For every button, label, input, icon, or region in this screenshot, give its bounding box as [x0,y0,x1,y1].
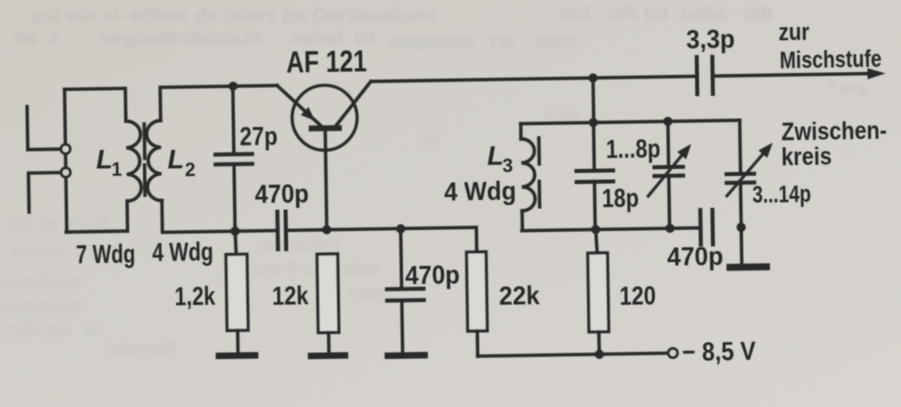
wire L3 bottom stub [520,211,524,231]
svg-text:o​ü​sl​​sck​o: o​ü​sl​​sck​o [0,296,82,317]
transistor base lead [325,131,327,229]
svg-text:18p: 18p [602,182,639,213]
wire trimmer2 top [738,120,742,172]
wire L3 top stub [519,124,523,139]
transistor collector lead [336,81,372,125]
node junction tank top / trimmer1 [663,117,672,126]
svg-text:lsl: lsl [418,129,439,150]
inductor L1 [126,121,142,201]
wire trimmer1 upper [666,121,670,165]
wire tank feed vertical upper [591,78,595,120]
svg-text:Zwischen-: Zwischen- [781,117,887,147]
svg-text:3: 3 [502,156,513,177]
ground under 1,2k [219,352,255,359]
svg-text:120: 120 [619,280,656,311]
ground under 12k [311,352,345,359]
svg-text:7 Wdg: 7 Wdg [76,238,136,269]
wire 12k bottom stub [327,333,331,353]
resistor R 22k [467,252,488,331]
node collector rail / tank [588,73,597,82]
wire L1 bottom [66,201,128,232]
svg-text:nell​​s​: nell​​s​ [348,284,391,305]
node junction tank top / feed [589,118,598,127]
terminal input top [61,144,70,153]
wire -8,5V rail [478,353,669,356]
transistor base bar [309,125,342,131]
wire 470p shunt lower [400,302,404,352]
capacitor C 470p series [277,212,286,250]
svg-text:AF 121: AF 121 [286,43,367,79]
wire antenna bottom stub [28,173,61,213]
trimmer2 arrow [726,153,765,196]
svg-text:nul uth siz nehc ieb: nul uth siz nehc ieb [560,3,773,25]
svg-text:n​u​l​​​v​lo​A sl: n​u​l​​​v​lo​A sl [2,320,98,341]
svg-text:22k: 22k [499,280,541,311]
svg-text:3...14p: 3...14p [752,181,811,209]
svg-text:lo​ls​v​ul​(​​l: lo​ls​v​ul​(​​l [105,339,177,360]
wire mid rail b [286,227,477,255]
wire 22k bottom stub [476,331,480,356]
wire 1,2k top stub [235,231,236,254]
inductor L3 [521,139,535,211]
wire 1,2k bottom stub [236,330,240,352]
wire 27p lower [234,166,235,231]
svg-text:2: 2 [185,160,196,181]
resistor R 1,2k [226,254,248,330]
svg-text:1: 1 [111,160,122,181]
wire to Mischstufe [713,74,870,76]
svg-text:kreis: kreis [781,142,832,171]
ground under 470p shunt [388,352,425,359]
wire 27p upper [233,86,234,152]
node junction D3 (base/12k) [322,225,331,234]
transistor emitter arrow [301,107,315,121]
wire mid rail a [235,229,277,233]
node junction 120 bottom [595,350,604,359]
wire 470p shunt upper [399,229,403,287]
node junction tank bottom / feed [591,225,600,234]
svg-text:3,3p: 3,3p [686,24,735,55]
wire 18p upper [592,123,596,169]
capacitor C 27p [215,154,252,164]
svg-text:es​nslüc​e: es​nslüc​e [0,272,81,293]
wire top rail right [372,76,697,81]
transistor Q1 AF 121 circle [292,85,358,151]
wire trimmer2 lower [741,185,742,264]
trimmer capacitor 3...14p plates [727,174,755,183]
terminal input bottom [61,168,70,177]
svg-text:neqnucte rsl nerh: neqnucte rsl nerh [390,32,576,53]
svg-text:1...8p: 1...8p [606,133,661,164]
svg-text:470p: 470p [667,241,724,272]
inductor L2 [146,121,161,201]
wire 120 bottom stub [597,332,601,355]
wire antenna top stub [27,106,61,150]
node junction D4 (470p shunt) [396,224,405,233]
capacitor C 3,3p [697,57,713,94]
wire 120 top stub [596,229,597,253]
node junction trimmer2 / 470p [737,223,746,232]
svg-text:1,2k: 1,2k [174,281,215,312]
wire L1 left rail middle [64,154,68,168]
wire tank top rail [521,120,740,123]
svg-text:4 Wdg: 4 Wdg [444,175,516,206]
svg-text:zur: zur [778,19,809,46]
wire 18p lower [593,184,597,230]
arrow zur Mischstufe [867,68,885,79]
svg-text:ne​s T l​​e​r​b​​nl​​lsl​r: ne​s T l​​e​r​b​​nl​​lsl​r [247,260,383,281]
wire L2 bottom [162,199,235,232]
node junction D2 (1,2k top) [230,227,239,236]
svg-text:Mischstufe: Mischstufe [779,46,881,75]
transistor emitter lead [277,85,321,126]
wire L1 left rail upper [63,89,67,144]
svg-text:ust vür sl- etlken ds tslers: ust vür sl- etlken ds tslers (m Oertlkoe… [30,5,438,27]
capacitor C 18p [576,170,613,182]
capacitor C 470p right [700,210,713,245]
svg-text:470p: 470p [255,178,309,209]
wire L2 top [160,86,234,120]
trimmer capacitor 1...8p plates [654,167,683,176]
node junction top of 27p [228,82,237,91]
svg-text:− 8,5 V: − 8,5 V [682,336,757,367]
svg-text:² e·​s: ² e·​s [828,79,867,100]
ground under trimmer2 [730,263,766,271]
core of L3 [539,138,540,207]
svg-text:4 Wdg: 4 Wdg [152,236,214,267]
wire trimmer1 lower [667,178,671,228]
terminal -8,5V [668,348,677,357]
trimmer1 arrow [648,154,684,196]
wire L1 top [65,88,126,122]
wire tank bottom rail [522,228,700,231]
node junction tank bottom / trimmer1 [665,224,674,233]
svg-text:27p: 27p [239,121,277,152]
svg-text:L: L [167,144,184,174]
resistor R 120 [588,253,609,332]
svg-text:470p: 470p [405,259,460,290]
resistor R 12k [317,254,339,333]
wire top rail left [233,84,277,88]
wire L1 left rail lower [64,177,68,232]
svg-text:12k: 12k [272,280,309,311]
transformer core L1/L2 [144,124,145,195]
capacitor C 470p shunt [387,289,424,301]
